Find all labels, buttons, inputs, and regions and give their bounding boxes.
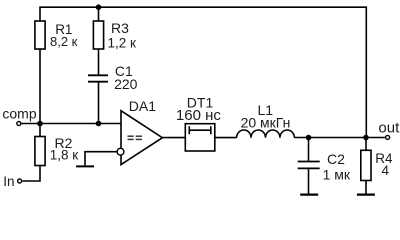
svg-text:8,2 к: 8,2 к [50, 34, 78, 49]
svg-text:4: 4 [382, 163, 390, 178]
svg-text:comp: comp [2, 106, 36, 122]
svg-text:20 мкГн: 20 мкГн [241, 115, 291, 131]
svg-text:C2: C2 [327, 151, 345, 167]
svg-text:In: In [3, 174, 14, 189]
svg-text:out: out [378, 119, 400, 136]
svg-text:160 нс: 160 нс [176, 107, 221, 124]
svg-text:DA1: DA1 [129, 98, 156, 114]
svg-text:220: 220 [114, 76, 138, 92]
svg-text:1,8 к: 1,8 к [50, 147, 79, 162]
svg-text:1,2 к: 1,2 к [108, 36, 137, 51]
svg-text:R3: R3 [111, 20, 129, 36]
svg-text:1 мк: 1 мк [323, 166, 351, 182]
